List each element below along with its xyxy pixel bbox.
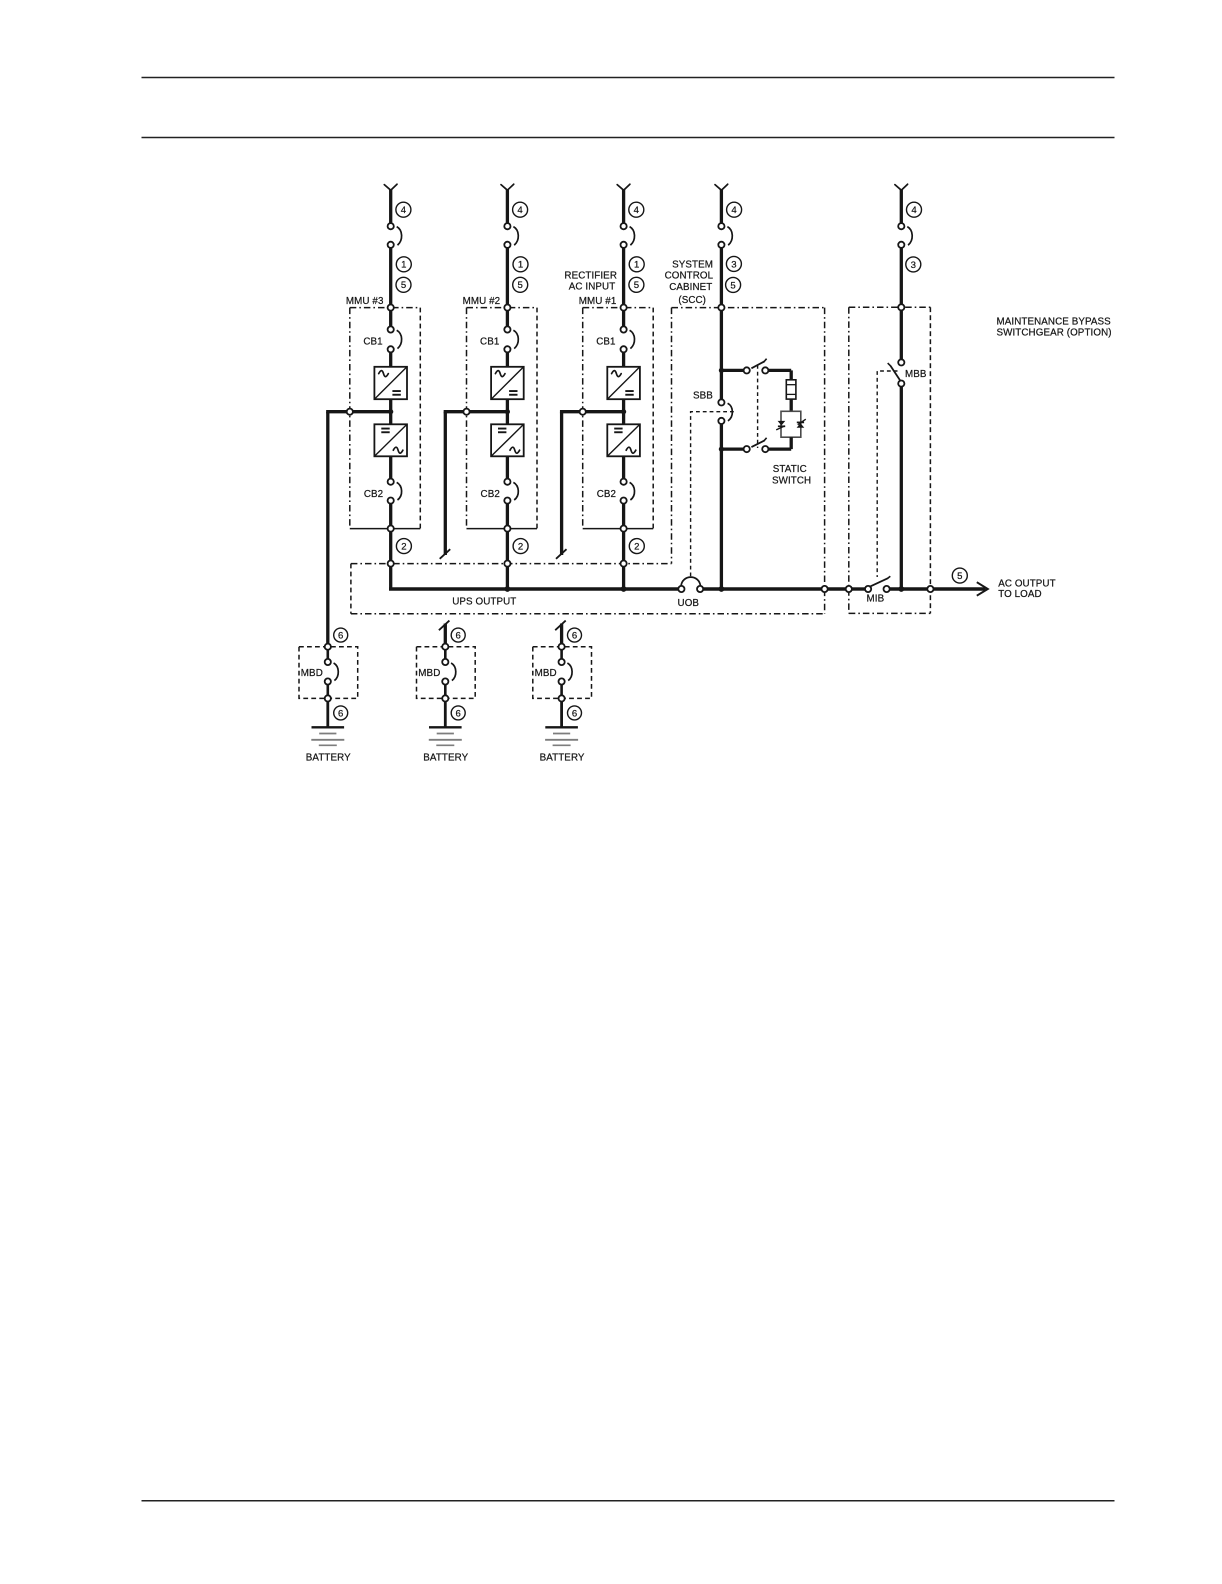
svg-text:MBD: MBD [535,668,557,679]
node MBD input junction (battery 2) [442,644,448,650]
svg-text:UOB: UOB [678,598,700,609]
rectifier (MMU #3) [374,367,407,399]
node DC bus junction (MMU #3) [388,409,393,414]
switch MIB [865,586,871,592]
thyristor pair (static switch) [781,411,801,437]
incoming line arrow maintenance bypass input [895,185,901,191]
switch MBD (battery 2) [442,659,448,665]
wire CB2 to cabinet edge (MMU #1) [622,504,625,526]
note 6 circle lower (battery 2) [451,706,465,720]
MMU #1 cabinet box [583,307,654,309]
svg-text:4: 4 [634,205,640,216]
MMU #2 cabinet box [467,307,538,309]
interlock link SBB-UOB (dashed) [691,412,734,577]
node MBD output junction (battery 3) [325,695,331,701]
note 4 circle MMU#1 input [629,202,644,217]
wire CB2 to cabinet edge (MMU #2) [506,504,509,526]
breaker CB1 (MMU #2) [504,326,510,332]
wire battery feed (MMU #1) [560,412,563,555]
rectifier (MMU #1) [607,367,640,399]
wire DC bus to battery drop (MMU #2) [444,410,464,413]
svg-text:4: 4 [731,205,737,216]
svg-text:RECTIFIER: RECTIFIER [564,271,617,282]
wire CB1 to rectifier (MMU #2) [506,352,509,366]
svg-text:6: 6 [456,631,461,642]
node SCC output junction [719,586,725,592]
svg-text:4: 4 [517,205,523,216]
disconnect switch maintenance bypass input [898,223,904,229]
breaker CB2 (MMU #3) [388,479,394,485]
node MBD output junction (battery 2) [442,695,448,701]
svg-text:CB1: CB1 [480,336,499,347]
svg-text:CB2: CB2 [481,489,500,500]
note 6 circle lower (battery 3) [334,706,348,720]
wire MBD upper (battery 3) [326,650,329,659]
wire inverter to CB2 (MMU #1) [622,456,625,478]
wire fuse to thyristor pair [790,399,793,411]
page header rule 2 [142,137,1115,139]
svg-text:BATTERY: BATTERY [306,752,351,763]
node MMU #3 input junction [388,305,394,311]
wire upper isolator to fuse [768,369,791,372]
wire battery feed (MMU #3) [326,412,329,644]
wire inverter to CB2 (MMU #3) [389,456,392,478]
node bus at bypass right boundary [927,586,933,592]
svg-text:CB1: CB1 [596,336,615,347]
svg-text:BATTERY: BATTERY [423,752,468,763]
battery (battery 3) [312,726,345,728]
incoming line arrow MMU#1 input [617,185,623,191]
switch MBB [898,359,904,365]
svg-text:AC OUTPUT: AC OUTPUT [998,578,1056,589]
wire battery feed (MMU #2) [444,412,447,555]
node bypass input junction [898,304,904,310]
node DC bus boundary (MMU #1) [580,409,586,415]
wire SCC feeder upper [720,311,723,400]
wire MMU #2 to CB1 [506,311,509,327]
note 2 circle (MMU #3) [396,539,411,554]
switch MBD (battery 1) [559,659,565,665]
cabinet SCC box [672,307,825,309]
disconnect switch MMU#1 input [621,223,627,229]
svg-text:2: 2 [518,542,523,553]
breaker CB2 (MMU #2) [504,479,510,485]
svg-text:SBB: SBB [693,391,713,402]
wire thyristor pair to lower isolator [790,437,793,449]
conduit boundary bottom edge [351,613,825,615]
note 4 circle maintenance bypass input [907,202,922,217]
node bypass output junction [898,586,904,592]
svg-text:1: 1 [518,260,523,271]
breaker CB2 (MMU #1) [621,479,627,485]
wire UPS output bus [389,587,678,590]
svg-text:5: 5 [401,280,406,291]
note 4 circle MMU#3 input [396,202,411,217]
svg-text:1: 1 [634,260,639,271]
node SCC input junction [718,305,724,311]
incoming line arrow SCC input [715,185,721,191]
node bus at bypass left boundary [846,586,852,592]
svg-text:MBD: MBD [301,668,323,679]
svg-text:2: 2 [401,542,406,553]
wire MMU #1 to CB1 [622,311,625,327]
svg-text:MAINTENANCE BYPASS: MAINTENANCE BYPASS [997,317,1112,328]
note 4 circle MMU#2 input [513,202,528,217]
svg-text:MBD: MBD [418,668,440,679]
page header rule 1 [142,77,1115,79]
fuse F1 (static switch) [786,380,796,399]
svg-text:MBB: MBB [905,369,927,380]
note 6 circle upper (battery 1) [568,628,582,642]
note 6 circle lower (battery 1) [568,706,582,720]
breaker CB1 (MMU #3) [388,326,394,332]
cabinet MBD box (battery 3) [299,647,358,699]
wire DC bus (MMU #3) [350,410,391,413]
wire CB1 to rectifier (MMU #1) [622,352,625,366]
wire CB1 to rectifier (MMU #3) [389,352,392,366]
svg-text:TO LOAD: TO LOAD [998,589,1042,600]
svg-text:6: 6 [456,708,461,719]
wire output drop (MMU #2) [506,532,509,561]
conduit boundary left edge [350,564,352,614]
rectifier (MMU #2) [491,367,524,399]
note 6 circle upper (battery 3) [334,628,348,642]
switch static-switch isolator upper [744,367,750,373]
node static switch tap lower [719,447,724,452]
wire output drop (MMU #3) [389,532,392,561]
svg-text:6: 6 [338,631,343,642]
note 5 circle at output [952,568,967,583]
wire SCC input below switch [720,248,723,305]
note 5 circle MMU#2 input [513,277,528,292]
MMU #3 cabinet box [350,307,421,309]
svg-text:4: 4 [911,205,917,216]
interlock link MBB-MIB (dashed) [877,371,897,577]
page footer rule [142,1500,1115,1502]
wire CB2 to cabinet edge (MMU #3) [389,504,392,526]
inverter (MMU #3) [374,424,407,456]
svg-text:1: 1 [401,260,406,271]
wire output to UPS bus (MMU #1) [622,567,625,591]
wire maintenance bypass input incoming [900,190,903,224]
wire output drop (MMU #1) [622,532,625,561]
wire MBD to battery (battery 3) [326,702,329,728]
svg-text:MMU #3: MMU #3 [346,296,384,307]
svg-text:CB2: CB2 [597,489,616,500]
note 5 circle MMU#3 input [396,277,411,292]
wire rectifier to DC bus (MMU #3) [389,399,392,424]
svg-text:5: 5 [957,571,962,582]
svg-text:STATIC: STATIC [773,464,807,475]
wire output to UPS bus (MMU #2) [506,567,509,591]
svg-text:MMU #2: MMU #2 [463,296,501,307]
wire DC bus to battery drop (MMU #3) [326,410,347,413]
node output boundary (MMU #1) [621,526,627,532]
wire inverter to CB2 (MMU #2) [506,456,509,478]
node output boundary (MMU #3) [388,526,394,532]
svg-text:SWITCHGEAR (OPTION): SWITCHGEAR (OPTION) [997,327,1112,338]
svg-text:5: 5 [634,280,639,291]
wire MBD upper (battery 2) [444,650,447,659]
svg-text:3: 3 [911,260,916,271]
node DC bus boundary (MMU #2) [463,409,469,415]
node MBD output junction (battery 1) [559,695,565,701]
svg-text:4: 4 [401,205,407,216]
wire MMU#1 input below switch [622,248,625,305]
note 3 circle SCC input [726,256,741,271]
svg-text:AC INPUT: AC INPUT [569,282,616,293]
disconnect switch MMU#3 input [388,223,394,229]
note 6 circle upper (battery 2) [451,628,465,642]
svg-text:CABINET: CABINET [669,282,712,293]
wire MMU#3 input below switch [389,248,392,305]
note 4 circle SCC input [727,202,742,217]
node DC bus boundary (MMU #3) [347,409,353,415]
switch static-switch isolator lower [762,446,768,452]
battery (battery 1) [545,726,578,728]
node DC bus junction (MMU #1) [621,409,626,414]
svg-text:6: 6 [338,708,343,719]
node DC bus junction (MMU #2) [505,409,510,414]
svg-text:(SCC): (SCC) [678,295,706,306]
node MBD input junction (battery 3) [325,644,331,650]
svg-text:CB2: CB2 [364,489,383,500]
wire SCC input incoming [720,190,723,224]
note 1 circle MMU#3 input [396,257,411,272]
wire lower isolator to feeder [721,447,743,450]
svg-text:5: 5 [518,280,523,291]
wire bypass feeder upper [900,310,903,359]
interlock link static switch (dashed) [757,365,759,448]
switch MBD (battery 3) [325,659,331,665]
incoming line arrow MMU#2 input [501,185,507,191]
wire rectifier to DC bus (MMU #1) [622,399,625,424]
node MBD input junction (battery 1) [559,644,565,650]
svg-text:SWITCH: SWITCH [772,475,811,486]
wire DC bus to battery drop (MMU #1) [560,410,580,413]
wire maintenance bypass input below switch [900,248,903,305]
note 1 circle MMU#2 input [513,257,528,272]
battery (battery 2) [429,726,462,728]
node bus junction MMU#1 [621,586,627,592]
note 3 circle maintenance bypass input [906,257,921,272]
wire MBD lower (battery 2) [444,685,447,696]
note 2 circle (MMU #2) [513,539,528,554]
svg-text:MIB: MIB [867,593,885,604]
wire MBD upper (battery 1) [560,650,563,659]
wire MBD to battery (battery 1) [560,702,563,728]
wire MBD lower (battery 3) [326,685,329,696]
wire output to UPS bus (MMU #3) [389,567,392,589]
cabinet MBD box (battery 2) [417,647,476,699]
svg-text:UPS OUTPUT: UPS OUTPUT [452,596,516,607]
node static switch tap upper [719,368,724,373]
wire to static switch upper contact [721,369,743,372]
svg-text:3: 3 [731,259,736,270]
node output on conduit line (MMU #1) [621,561,627,567]
node MMU #2 input junction [504,305,510,311]
inverter (MMU #1) [607,424,640,456]
cabinet maintenance bypass switchgear box [849,306,931,308]
wire MBB to UPS bus [900,387,903,589]
node output boundary (MMU #2) [504,526,510,532]
note 5 circle SCC input [726,277,741,292]
node output on conduit line (MMU #2) [504,561,510,567]
wire MMU #3 to CB1 [389,311,392,327]
breaker UOB [678,586,684,592]
wire MBD to battery (battery 2) [444,702,447,728]
svg-text:CONTROL: CONTROL [665,271,714,282]
inverter (MMU #2) [491,424,524,456]
wire SBB to UPS bus [720,424,723,589]
svg-text:CB1: CB1 [363,336,382,347]
svg-text:MMU #1: MMU #1 [579,296,617,307]
breaker CB1 (MMU #1) [621,326,627,332]
disconnect switch MMU#2 input [504,223,510,229]
arrow to load [977,582,988,596]
svg-text:6: 6 [572,708,577,719]
svg-text:6: 6 [572,631,577,642]
wire DC bus (MMU #2) [467,410,508,413]
breaker SBB [718,399,724,405]
wire MMU#3 input incoming [389,190,392,224]
wire DC bus (MMU #1) [583,410,624,413]
node output on conduit line (MMU #3) [388,561,394,567]
note 2 circle (MMU #1) [629,539,644,554]
cabinet MBD box (battery 1) [533,647,592,699]
svg-text:5: 5 [730,280,735,291]
wire MMU#2 input incoming [506,190,509,224]
node MMU #1 input junction [621,305,627,311]
node bus at SCC boundary [822,586,828,592]
incoming line arrow MMU#3 input [384,185,390,191]
svg-text:BATTERY: BATTERY [540,752,585,763]
svg-text:SYSTEM: SYSTEM [672,259,713,270]
wire rectifier to DC bus (MMU #2) [506,399,509,424]
conduit boundary (dash-dot) above UPS output [351,563,672,565]
note 1 circle MMU#1 input [629,257,644,272]
wire MMU#1 input incoming [622,190,625,224]
wire MMU#2 input below switch [506,248,509,305]
wire MBD lower (battery 1) [560,685,563,696]
note 5 circle MMU#1 input [629,277,644,292]
svg-text:2: 2 [634,542,639,553]
disconnect switch SCC input [718,223,724,229]
node bus junction MMU#2 [505,586,511,592]
